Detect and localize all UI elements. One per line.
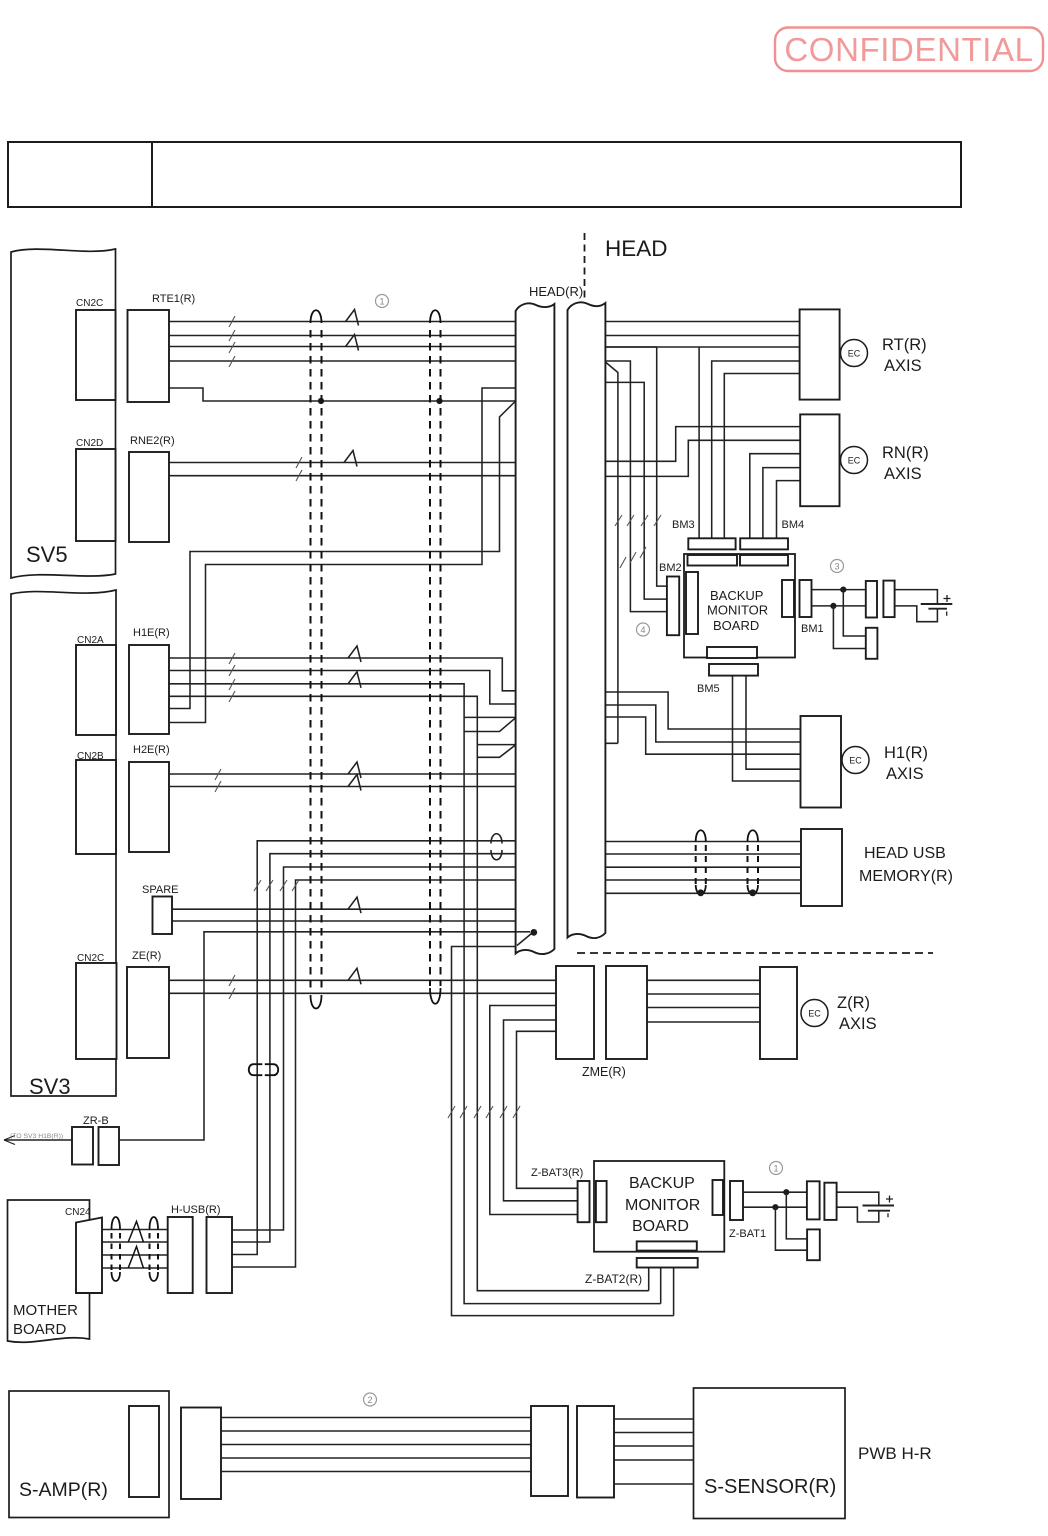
junction dot [318,398,324,404]
wire battery2 positive [837,1192,879,1205]
connector S-SENSOR cable end 2 [577,1406,614,1498]
svg-text:AXIS: AXIS [886,765,924,783]
svg-text:Z-BAT2(R): Z-BAT2(R) [585,1272,642,1286]
svg-text:S-SENSOR(R): S-SENSOR(R) [704,1476,836,1498]
wire ZME to Z-BAT3 a [490,1006,578,1215]
cable tick marks RTE1 [229,316,235,367]
wire battery1 positive [895,590,938,604]
wire to S-SENSOR row2 [614,1432,694,1434]
wire HEAD(R) to BM2 a [605,347,667,586]
connector ZE(R) [127,967,169,1058]
wire H-USB riser 1 to HEAD(R) [232,841,516,1255]
svg-text:BM5: BM5 [697,683,720,695]
pin header BM2 inner [686,572,698,634]
wire Z-BAT1 battery feed - [743,1206,807,1208]
svg-text:BOARD: BOARD [632,1218,689,1235]
connector CN2C (SV3) [76,963,117,1059]
connector ZR-B left [72,1127,93,1165]
HEAD boundary dashed line [584,233,586,301]
wire BM1 drop a [843,590,866,636]
break symbol wire 321.5 [346,310,359,326]
wire ZME to Z axis 2 [647,993,760,995]
pin header BM4 inner [740,555,788,566]
wire BM3 tap 2 to RT [712,361,800,538]
motor circle EC - H1 [842,747,869,774]
svg-text:1: 1 [379,297,384,307]
connector BM5 [709,664,758,676]
svg-text:EC: EC [848,349,861,359]
wire HEAD(R) to H1 axis 1 [605,692,800,729]
connector RT(R) axis [800,309,840,399]
wire ZME to Z axis 1 [647,979,760,981]
svg-text:AXIS: AXIS [839,1015,877,1033]
svg-text:EC: EC [808,1009,821,1019]
cable tick marks BM2 verticals [615,515,661,526]
wire SPARE pin2 [172,920,516,922]
svg-text:CN2D: CN2D [76,438,103,449]
wire battery2 negative [837,1207,879,1222]
wire BM5 to H1 axis b [746,676,801,770]
svg-text:BOARD: BOARD [713,618,759,633]
break symbol wire 774 [348,762,361,778]
cable shield dashed pair 1 [311,310,322,1008]
wire to S-SENSOR row5 [614,1483,694,1485]
battery link bar 2c (lower) [807,1229,820,1260]
break symbol wire 786.5 [348,775,361,791]
pin header Z-BAT1 inner [713,1180,724,1215]
svg-text:ZE(R): ZE(R) [132,950,161,962]
connector H2E(R) [129,762,169,852]
wire H1E pin3 down to Z-BAT2 [169,684,661,1304]
wire H2E pin2 to HEAD(R) [169,786,516,788]
wire RTE1 pin1 to HEAD(R) [169,321,516,323]
wire HEAD(R) to HEAD USB MEMORY 2 [605,853,801,855]
wire S-AMP cable row5 [221,1471,531,1473]
svg-text:H-USB(R): H-USB(R) [171,1204,221,1216]
connector ZR-B right [99,1127,120,1165]
cable tick marks ZE [229,975,235,999]
svg-text:S-AMP(R): S-AMP(R) [19,1479,108,1501]
connector S-SENSOR cable end 1 [531,1406,568,1496]
wire HEAD(R) shield down to Z-BAT2 [452,947,674,1316]
wire Z-BAT1 drop b [775,1207,807,1250]
svg-text:EC: EC [848,456,861,466]
svg-text:CN2C: CN2C [76,298,103,309]
wire RTE1 pin4 to HEAD(R) [169,360,516,362]
wire BM5 to H1 axis a [733,676,801,781]
motor circle EC - Z [801,1000,828,1027]
wire ZME to Z axis 3 [647,1007,760,1009]
wire H1E pin2 to HEAD(R) [169,671,516,705]
svg-text:MONITOR: MONITOR [707,603,768,618]
break symbol wire 683.8 [348,672,361,688]
wire HEAD(R) to RN axis 1 [605,427,800,462]
svg-text:ZR-B: ZR-B [83,1115,109,1127]
connector Z-BAT2(R) [637,1258,698,1268]
circled number 2 (S-AMP cable) [364,1393,377,1406]
junction dot [772,1204,778,1210]
wire H-USB riser 3 to HEAD(R) [232,867,516,1230]
cable tick marks RNE2 [296,457,302,481]
svg-text:ZME(R): ZME(R) [582,1065,626,1079]
wire H1E pin4 down to Z-BAT2 [169,696,649,1290]
wire Z-BAT1 battery feed + [743,1191,807,1193]
wire CN24 to H-USB row2 [102,1241,168,1243]
svg-text:BOARD: BOARD [13,1321,67,1338]
HEAD area dashed boundary (horizontal) [577,952,933,954]
svg-text:Z-BAT3(R): Z-BAT3(R) [531,1167,583,1179]
twist cross CN24 row4 [128,1247,143,1269]
circled number 4 (BM2 cable) [637,623,650,636]
shield lace loop 1 on HEAD USB cable [696,830,706,896]
svg-text:H1E(R): H1E(R) [133,627,170,639]
svg-text:BM3: BM3 [672,519,695,531]
wire RN to BM4 tap 1 [750,454,800,539]
cable tick marks H1E [229,653,235,702]
wire HEAD(R) to RT axis 2 [605,335,800,337]
connector CN2A [76,645,116,735]
connector BM3 [688,538,735,549]
connector SPARE [153,897,173,935]
svg-text:RT(R): RT(R) [882,336,927,354]
svg-text:H2E(R): H2E(R) [133,744,170,756]
svg-text:BACKUP: BACKUP [710,588,763,603]
connector RNE2(R) [129,452,169,542]
wire Z-BAT1 drop a [786,1192,807,1239]
svg-text:HEAD USB: HEAD USB [864,845,946,862]
svg-text:HEAD(R): HEAD(R) [529,284,583,299]
connector RTE1(R) [128,310,170,402]
wire to S-SENSOR row1 [614,1418,694,1420]
connector HEAD(R) bar 2 [568,302,606,938]
wire ZME to Z-BAT3 c [517,1031,578,1188]
wire HEAD(R) to RN axis 2 [605,440,800,476]
wire S-AMP cable row3 [221,1444,531,1446]
connector RN(R) axis [800,414,839,506]
svg-text:PWB H-R: PWB H-R [858,1444,932,1463]
svg-text:CN24: CN24 [65,1207,91,1218]
wire ZME to Z axis 4 [647,1021,760,1023]
wire RNE2 pin1 to HEAD(R) [169,462,516,464]
wire BM3 tap 1 [698,347,700,538]
wire CN24 to H-USB row1 [102,1229,168,1231]
svg-text:3: 3 [834,562,839,572]
wire BM1 battery feed + [812,589,866,591]
svg-text:CN2A: CN2A [77,635,104,646]
battery BT2 polarity [886,1196,893,1218]
wire HEAD(R) to BM2 b [605,361,667,612]
svg-text:MEMORY(R): MEMORY(R) [859,868,953,885]
connector BM2 [667,577,679,636]
circled number 3 (upper battery) [831,560,844,573]
svg-text:AXIS: AXIS [884,465,922,483]
wire HEAD(R) to RT axis 1 [605,321,800,323]
break symbol wire 346.5 [346,335,359,351]
wire CN24 to H-USB row3 [102,1254,168,1256]
pin header Z-BAT2 inner [637,1241,697,1250]
svg-text:2: 2 [367,1395,372,1405]
wire ZR-B riser to HEAD(R) dot [119,932,530,1140]
connector CN24 [76,1218,102,1294]
junction dot [840,587,846,593]
svg-text:4: 4 [640,625,645,635]
svg-text:H1(R): H1(R) [884,744,928,762]
wire to S-SENSOR row3 [614,1445,694,1447]
connector S-AMP internal [129,1406,159,1497]
svg-text:BM1: BM1 [801,623,824,635]
svg-text:(TO SV3 H1B(R)): (TO SV3 H1B(R)) [10,1133,63,1140]
connector Z-BAT1 [730,1181,743,1220]
svg-text:BACKUP: BACKUP [629,1175,695,1192]
title table [8,142,961,207]
svg-text:Z(R): Z(R) [837,994,870,1012]
connector CN2C (SV5) [76,310,116,400]
board BACKUP MONITOR BOARD (upper) [684,554,795,658]
cable shield dashed pair 2 [430,310,441,1004]
wire HEAD(R) to H1 axis 3 [605,717,800,754]
svg-text:MOTHER: MOTHER [13,1302,78,1319]
battery link bar 1b [883,581,894,618]
connector BM4 [740,538,788,549]
battery link bar 2a [807,1181,820,1219]
svg-text:RN(R): RN(R) [882,444,929,462]
junction dot at HEAD(R) cut [530,929,537,936]
board SV3 [11,590,116,1096]
wire H2E pin1 to HEAD(R) [169,773,516,775]
junction dot [830,603,836,609]
battery link bar 1a [866,581,877,618]
battery link bar 1c (lower) [866,628,878,659]
wire RNE2 pin2 to HEAD(R) [169,475,516,477]
board S-AMP(R) [9,1391,169,1518]
connector ZME(R) 2 [606,966,647,1059]
cable tick marks HEAD bar right [620,547,646,568]
pin header BM5 inner [707,647,757,658]
connector H1(R) axis [801,716,842,808]
wire RN to BM4 tap 2 [763,468,800,539]
junction dot [436,398,442,404]
cable tick marks H2E [215,769,221,792]
svg-text:RNE2(R): RNE2(R) [130,435,175,447]
wire RTE1 pin2 to HEAD(R) [169,335,516,337]
wire S-AMP cable row4 [221,1457,531,1459]
board BACKUP MONITOR BOARD (lower) [594,1161,724,1252]
motor circle EC - RT [841,340,868,367]
break symbol wire 462.5 [344,451,357,467]
battery link bar 2b [824,1183,836,1220]
connector CN2B [76,760,116,854]
wire Z-BAT2 drop 1 [648,1268,650,1291]
svg-text:MONITOR: MONITOR [625,1197,700,1214]
pin header BM3 inner [688,555,738,566]
motor circle EC - RN [841,447,868,474]
wire shield entry [169,388,516,723]
cable tick marks Z risers [448,1106,520,1118]
svg-text:AXIS: AXIS [884,357,922,375]
wire head cut diagonal [517,934,532,946]
wire RN to BM4 tap 3 [777,481,801,539]
wire shield flick to BM loop [605,362,618,743]
wire ZR-B arrow to SV3 [4,1139,72,1141]
shield lace loop 2 on HEAD USB cable [748,830,759,896]
svg-text:SPARE: SPARE [142,884,178,896]
connector HEAD USB MEMORY(R) [801,829,842,906]
battery BT1 plates [921,604,953,609]
wire H-USB riser 4 to HEAD(R) [232,880,516,1267]
wire battery1 negative [895,606,938,622]
board SV5 [11,249,116,578]
connector Z(R) axis [760,967,797,1059]
svg-text:Z-BAT1: Z-BAT1 [729,1228,766,1240]
wire ZE pin1 to ZME [169,979,556,981]
arrowhead [4,1136,15,1145]
cable loop marker on HEAD USB pair [491,834,502,860]
board MOTHER BOARD [8,1200,90,1342]
wire HEAD(R) to HEAD USB MEMORY 3 [605,866,801,868]
wire H1E pin1 to HEAD(R) [169,658,516,691]
wire H-USB riser 2 to HEAD(R) [232,854,516,1242]
wire HEAD(R) to HEAD USB MEMORY 4 [605,879,801,881]
connector H-USB(R) right [207,1217,233,1293]
wire ZE pin2 to ZME [169,992,556,994]
pin header BM1 inner [782,580,794,617]
svg-text:CONFIDENTIAL: CONFIDENTIAL [784,31,1033,68]
svg-text:CN2C: CN2C [77,953,104,964]
svg-text:SV3: SV3 [29,1074,71,1099]
wire S-AMP cable row2 [221,1430,531,1432]
wire end into HEAD(R) cut [516,931,530,933]
svg-text:RTE1(R): RTE1(R) [152,293,195,305]
head cut diagonal [517,934,532,946]
twisted pair marker on H-USB risers [249,1064,278,1075]
break symbol wire 658 [348,646,361,662]
wire BM1 battery feed - [812,605,866,607]
wire Z-BAT2 drop 2 [660,1268,662,1304]
twisted pair loop CN24 b [150,1217,159,1281]
wire BM1 drop b [833,606,865,649]
connector CN2D [76,449,116,541]
connector S-AMP cable end [181,1408,221,1500]
wire RTE1 pin3 to HEAD(R) [169,346,516,348]
wire BM3 tap 3 to RT [724,374,800,539]
connector H-USB(R) left [168,1217,193,1293]
wire SPARE pin1 [172,908,516,910]
cable tick marks riser group [254,880,299,891]
battery BT2 plates [863,1206,895,1211]
svg-text:BM2: BM2 [659,562,682,574]
connector Z-BAT3(R) [578,1181,590,1222]
wire S-AMP cable row1 [221,1417,531,1419]
twisted pair loop CN24 a [112,1217,121,1281]
svg-text:BM4: BM4 [782,519,805,531]
battery BT1 polarity [944,595,951,616]
wire HEAD(R) to HEAD USB MEMORY shield [605,892,801,894]
board S-SENSOR(R) [694,1388,846,1519]
pin header Z-BAT3 inner [596,1181,607,1222]
svg-text:HEAD: HEAD [605,236,668,261]
svg-text:CN2B: CN2B [77,751,104,762]
wire shield flick into HEAD(R) lower [477,745,515,758]
svg-text:1: 1 [773,1164,778,1174]
wire RTE1 shield stub [169,388,516,401]
wire Z-BAT2 drop 3 [673,1268,675,1316]
wire CN24 to H-USB row4 [102,1267,168,1269]
break symbol wire 909 [348,897,361,913]
wire shield flick into HEAD(R) upper [464,717,515,731]
wire HEAD(R) to RT axis 3 [605,346,800,348]
svg-text:EC: EC [849,756,862,766]
svg-text:SV5: SV5 [26,542,68,567]
break symbol wire 980 [348,968,361,984]
wire ZME to Z-BAT3 b [504,1020,578,1201]
wire to S-SENSOR row4 [614,1459,694,1461]
wire HEAD(R) to HEAD USB MEMORY 1 [605,841,801,843]
circled number 1 (lower battery) [770,1162,783,1175]
junction dot at HEAD(R) cut [530,929,537,936]
connector ZME(R) 1 [556,966,594,1059]
wire shield flick at HEAD(R) [169,401,516,709]
wire HEAD(R) to H1 axis 2 [605,705,800,742]
connector BM1 [800,580,812,617]
twist cross CN24 row2 [128,1221,143,1242]
connector HEAD(R) bar 1 [516,303,555,954]
junction dot [783,1189,789,1195]
connector H1E(R) [129,645,169,734]
circled number 1 (top cable) [376,295,389,308]
wire HEAD(R) to BM2 c [605,382,667,599]
CONFIDENTIAL stamp [775,28,1043,72]
